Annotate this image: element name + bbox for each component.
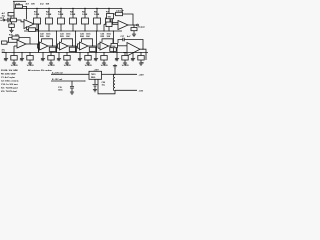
wire IC6 inputs — [118, 45, 128, 47]
node MB12 — [103, 52, 104, 53]
capacitor CD14 — [122, 56, 128, 61]
wire stage4 fb — [82, 39, 93, 46]
svg-text:16V: 16V — [125, 65, 129, 67]
node IC6 out — [142, 49, 143, 50]
wire lower bus to R19 — [103, 24, 105, 31]
wire drop 12 — [103, 53, 105, 56]
svg-text:10K: 10K — [86, 36, 90, 38]
ground MB15 — [131, 57, 135, 61]
wire A4 input riser — [77, 44, 79, 48]
ground MB12 — [102, 62, 106, 66]
svg-text:1u: 1u — [27, 65, 30, 67]
op-amp IC6 output — [127, 43, 140, 57]
svg-text:10K: 10K — [107, 36, 111, 38]
wire branch 6 upper — [96, 9, 98, 19]
node MB3 — [21, 52, 22, 53]
svg-text:1u: 1u — [85, 65, 88, 67]
wire branch 2 lower — [48, 24, 50, 31]
svg-text:10K: 10K — [66, 36, 70, 38]
wire reg gnd return — [98, 79, 115, 94]
wire mid bus — [2, 52, 148, 54]
resistor R21 load — [131, 28, 137, 31]
op-amp IC5 summing — [118, 21, 128, 30]
resistor Rs5 — [110, 47, 117, 51]
op-amp A2 — [40, 42, 49, 50]
svg-text:C17: C17 — [121, 36, 126, 38]
wire drop 11 — [95, 53, 97, 58]
wire R18 riser — [109, 19, 111, 22]
wire drop 2 low — [13, 60, 15, 62]
wire A3 out — [68, 45, 77, 47]
wire bus end to feedback node — [121, 9, 123, 13]
node LB3 on lower bus — [60, 30, 61, 31]
svg-text:10K: 10K — [46, 36, 50, 38]
wire riser x14 — [13, 1, 15, 20]
ground MB6 — [49, 62, 53, 66]
node A2 out — [52, 45, 53, 46]
capacitor C20 — [93, 85, 98, 89]
capacitor CD12 — [101, 56, 107, 61]
ground C20 — [93, 88, 97, 92]
svg-text:16V: 16V — [67, 65, 71, 67]
svg-text:16V: 16V — [51, 65, 55, 67]
resistor RB1 branch — [34, 18, 41, 24]
wire branch 4 upper — [72, 9, 74, 19]
wire branch 1 lower — [36, 24, 38, 31]
node MB2 — [13, 52, 14, 53]
node output terminal — [137, 24, 139, 26]
node divider x96.5 — [96, 30, 97, 31]
wire A3 input riser — [57, 44, 59, 48]
svg-text:1u: 1u — [48, 65, 51, 67]
capacitor CD8 — [64, 56, 70, 61]
ground MB3 — [20, 57, 24, 61]
svg-text:REG: REG — [91, 77, 96, 79]
wire stage divider x113.5 — [113, 31, 115, 53]
wire drop 1 — [5, 53, 7, 58]
wire drop 16 low — [140, 60, 142, 62]
wire drop 2 — [13, 53, 15, 56]
svg-text:1u: 1u — [64, 65, 67, 67]
wire drop 5 — [42, 53, 44, 58]
wire drop 7 — [58, 53, 60, 58]
wire rail B — [51, 80, 85, 82]
capacitor CD10 — [85, 56, 91, 61]
wire IC2a out — [26, 43, 39, 45]
svg-text:1u: 1u — [11, 65, 14, 67]
node stage1 out — [38, 43, 39, 44]
svg-text:16V: 16V — [104, 65, 108, 67]
svg-text:R25: R25 — [101, 36, 106, 38]
ground MB9 — [78, 57, 82, 61]
svg-text:-15V: -15V — [139, 91, 144, 93]
wire branch 5 lower — [84, 24, 86, 31]
svg-text:10K: 10K — [46, 4, 50, 6]
node MB6 — [50, 52, 51, 53]
wire stage5 fb — [102, 39, 113, 46]
svg-text:R23: R23 — [60, 36, 65, 38]
node LB1 on lower bus — [36, 30, 37, 31]
ground MB14 — [123, 62, 127, 66]
wire drop 10 — [87, 53, 89, 56]
svg-text:B -15V rail: B -15V rail — [52, 78, 63, 81]
ground MB16 — [139, 62, 143, 66]
voltage regulator U7 7815 — [89, 71, 102, 79]
node rail B end — [84, 80, 85, 81]
wire R19 to noninv — [112, 23, 118, 25]
wire summing output — [128, 24, 137, 26]
svg-text:1.00K: 1.00K — [46, 14, 52, 16]
resistor R19 input lower — [106, 22, 112, 27]
wire branch 7 lower — [108, 24, 110, 31]
node LB7 on lower bus — [108, 30, 109, 31]
ground above coil — [113, 64, 117, 68]
op-amp A4 — [80, 42, 89, 50]
svg-text:A +15V rail: A +15V rail — [52, 71, 63, 74]
svg-text:10K: 10K — [31, 4, 35, 6]
svg-text:C2: 100n ceramic: C2: 100n ceramic — [1, 81, 19, 83]
node MB15 — [132, 52, 133, 53]
resistor Rs2 — [49, 47, 56, 51]
wire Rs5 stub — [116, 46, 118, 53]
ground MB5 — [41, 57, 45, 61]
resistor RB4 branch — [70, 18, 77, 24]
node MB13 — [116, 52, 117, 53]
resistor Rs4 — [89, 47, 96, 51]
svg-text:1u: 1u — [122, 65, 125, 67]
wire shunt — [11, 22, 13, 24]
wire A3 inputs — [58, 43, 60, 45]
svg-text:R24: R24 — [80, 35, 85, 38]
svg-text:R22: R22 — [40, 36, 45, 38]
wire C2 drop — [10, 16, 12, 18]
node divider x56.5 — [56, 30, 57, 31]
wire branch 2 upper — [48, 9, 50, 19]
resistor RB5 branch — [82, 18, 89, 24]
wire +15V rail — [115, 73, 137, 75]
wire R2-IC1a — [17, 20, 25, 22]
svg-text:IC2: TL072 dual: IC2: TL072 dual — [1, 91, 17, 93]
svg-text:+15V: +15V — [139, 74, 145, 76]
wire reg out — [102, 73, 116, 75]
wire R11 — [7, 41, 9, 43]
wire Rs2 stub — [56, 46, 58, 53]
ground C19 — [70, 91, 74, 95]
resistor R10 fb — [12, 36, 19, 39]
node divider1 top — [38, 30, 39, 31]
wire A2 out — [48, 45, 57, 47]
svg-text:C1: 4n7 mylar: C1: 4n7 mylar — [1, 76, 15, 79]
capacitor CD16 — [138, 56, 144, 61]
wire IC6 out — [140, 49, 146, 60]
wire A5 out — [109, 45, 118, 47]
node divider x75.5 — [75, 30, 76, 31]
node MB16 — [140, 52, 141, 53]
wire drop 16 — [140, 53, 142, 56]
svg-text:All resistors 5% carbon: All resistors 5% carbon — [28, 69, 52, 72]
wire bus to IC1a noninv — [26, 9, 28, 20]
inductor L1 winding — [113, 74, 115, 91]
wire reg gnd stub — [94, 79, 96, 84]
node TB4 on top bus — [72, 8, 73, 9]
resistor RB2 branch — [46, 18, 53, 24]
wire inv drop — [13, 46, 15, 53]
capacitor CD4 — [27, 56, 33, 61]
svg-text:10u: 10u — [102, 84, 106, 86]
wire branch 6 lower — [96, 24, 98, 31]
node MB11 — [95, 52, 96, 53]
resistor R4 fb lower — [29, 28, 36, 32]
wire drop 3 — [21, 53, 23, 58]
wire drop 4 low — [29, 60, 31, 62]
ground MB11 — [94, 57, 98, 61]
node TB5 on top bus — [84, 8, 85, 9]
svg-text:1.00K: 1.00K — [34, 14, 40, 16]
wire drop 14 — [124, 53, 126, 56]
node TB1 on top bus — [36, 8, 37, 9]
node output junction — [132, 24, 133, 25]
node A4 out — [92, 45, 93, 46]
wire A2 inputs — [38, 43, 40, 45]
capacitor C2 top — [8, 13, 14, 16]
wire drop 15 — [132, 53, 134, 58]
op-amp IC1a buffer — [24, 20, 34, 29]
node LB6 on lower bus — [96, 30, 97, 31]
wire A4 out — [88, 45, 97, 47]
node MB5 — [42, 52, 43, 53]
svg-text:4u7: 4u7 — [127, 35, 131, 38]
resistor RB6 branch — [94, 18, 101, 24]
svg-text:1.00K: 1.00K — [94, 14, 100, 16]
wire drop 6 low — [50, 60, 52, 62]
capacitor CD2 — [11, 56, 17, 61]
node TB2 on top bus — [48, 8, 49, 9]
wire bias right — [23, 6, 27, 8]
wire drop 14 low — [124, 60, 126, 62]
wire coil top riser — [114, 68, 116, 74]
wire branch 4 lower — [72, 24, 74, 31]
node lower bus tap — [103, 30, 104, 31]
svg-text:16V: 16V — [30, 65, 34, 67]
wire A4 inputs — [78, 43, 80, 45]
wire top rail stub — [13, 0, 26, 2]
wire stage divider x96.5 — [96, 31, 98, 53]
wire A2 input riser — [37, 44, 39, 48]
resistor R2 series — [11, 18, 17, 22]
svg-text:70p: 70p — [2, 15, 6, 17]
capacitor C19 — [70, 81, 74, 91]
ground MB7 — [57, 57, 61, 61]
wire Rs4 stub — [96, 46, 98, 53]
node MB8 — [66, 52, 67, 53]
wire branch 1 upper — [36, 9, 38, 19]
wire -15V rail — [115, 89, 137, 91]
wire fb lower — [27, 29, 29, 31]
svg-text:1.00K: 1.00K — [82, 14, 88, 16]
node TB3 on top bus — [60, 8, 61, 9]
op-amp A3 — [60, 42, 69, 50]
wire drop 8 low — [66, 60, 68, 62]
ground MB1 — [4, 57, 8, 61]
svg-text:R1-R8: 10k 1/4W: R1-R8: 10k 1/4W — [1, 69, 19, 72]
svg-text:1.00K: 1.00K — [58, 14, 64, 16]
wire drop 9 — [79, 53, 81, 58]
ground MB2 — [12, 62, 16, 66]
svg-text:16V: 16V — [14, 65, 18, 67]
wire drop 8 — [66, 53, 68, 56]
node A5 out — [112, 45, 113, 46]
resistor R11 input — [2, 41, 8, 44]
svg-text:16V: 16V — [88, 65, 92, 67]
ground MB8 — [65, 62, 69, 66]
wire IC2a inputs — [9, 41, 18, 43]
svg-text:IC1: TL074 quad: IC1: TL074 quad — [1, 87, 18, 90]
ground MB4 — [28, 62, 32, 66]
resistor R3 shunt — [9, 24, 15, 27]
svg-text:Output: Output — [138, 26, 145, 29]
resistor R18 input top — [107, 14, 114, 19]
wire stage divider x38.5 — [38, 24, 40, 53]
wire A5 input riser — [97, 44, 99, 48]
svg-text:2n2: 2n2 — [40, 4, 44, 6]
op-amp A5 — [100, 42, 109, 50]
svg-text:C15 1uF: C15 1uF — [116, 11, 125, 13]
capacitor C1 coupling — [8, 18, 9, 22]
node A3 out — [72, 45, 73, 46]
wire rail A — [51, 73, 89, 75]
node LB2 on lower bus — [48, 30, 49, 31]
node LB4 on lower bus — [72, 30, 73, 31]
svg-text:C10: 1u 16V tant: C10: 1u 16V tant — [1, 83, 18, 86]
wire C1-R2 — [9, 19, 11, 21]
node MB10 — [87, 52, 88, 53]
wire A5 inputs — [98, 43, 100, 45]
capacitor CD6 — [48, 56, 54, 61]
node MB14 — [124, 52, 125, 53]
wire drop 12 low — [103, 60, 105, 62]
resistor R1 bias — [16, 5, 23, 8]
node IC1a noninv — [26, 8, 27, 9]
resistor Rs3 — [69, 47, 76, 51]
wire fb drop — [26, 26, 28, 29]
wire drop 10 low — [87, 60, 89, 62]
resistor RB3 branch — [58, 18, 65, 24]
wire IC1a out drop — [38, 24, 40, 53]
wire fb stage1 — [9, 38, 31, 44]
wire feedback loop — [111, 14, 133, 25]
wire stage2 fb — [42, 39, 53, 46]
ground MB10 — [86, 62, 90, 66]
wire branch 3 upper — [60, 9, 62, 19]
ground load — [132, 33, 136, 37]
svg-text:R9: 220k 1/4W: R9: 220k 1/4W — [1, 73, 16, 76]
wire drop 4 — [29, 53, 31, 56]
svg-text:1.00K: 1.00K — [70, 14, 76, 16]
wire stage3 fb — [62, 39, 73, 46]
wire top bus — [14, 8, 122, 10]
ground input — [9, 29, 13, 33]
svg-text:4n7: 4n7 — [26, 3, 30, 6]
node TB7 on top bus — [108, 8, 109, 9]
wire stage divider x75.5 — [75, 31, 77, 53]
svg-text:1u: 1u — [101, 65, 104, 67]
node MB1 — [5, 52, 6, 53]
wire drop 13 — [116, 53, 118, 58]
ground MB13 — [115, 57, 119, 61]
wire branch 7 upper — [108, 9, 110, 19]
node MB4 — [29, 52, 30, 53]
node divider x113.5 — [113, 30, 114, 31]
wire Rs3 stub — [76, 46, 78, 53]
wire stage divider x56.5 — [56, 31, 58, 53]
wire load — [133, 25, 135, 28]
wire IC1a out — [34, 23, 39, 25]
node LB5 on lower bus — [84, 30, 85, 31]
wire fb stage4 — [118, 40, 143, 50]
wire branch 5 upper — [84, 9, 86, 19]
resistor R20 feedback — [116, 12, 123, 15]
op-amp IC2a — [17, 40, 26, 48]
svg-text:100n: 100n — [58, 89, 63, 91]
wire input — [5, 19, 8, 21]
node MB7 — [58, 52, 59, 53]
svg-text:in: in — [0, 20, 3, 22]
resistor RB7 branch — [106, 18, 113, 24]
wire lower bus — [24, 30, 122, 32]
resistor R30 — [111, 44, 118, 48]
wire drop 6 — [50, 53, 52, 56]
node TB6 on top bus — [96, 8, 97, 9]
wire branch 3 lower — [60, 24, 62, 31]
node MB9 — [79, 52, 80, 53]
capacitor C17 fb — [123, 38, 124, 41]
